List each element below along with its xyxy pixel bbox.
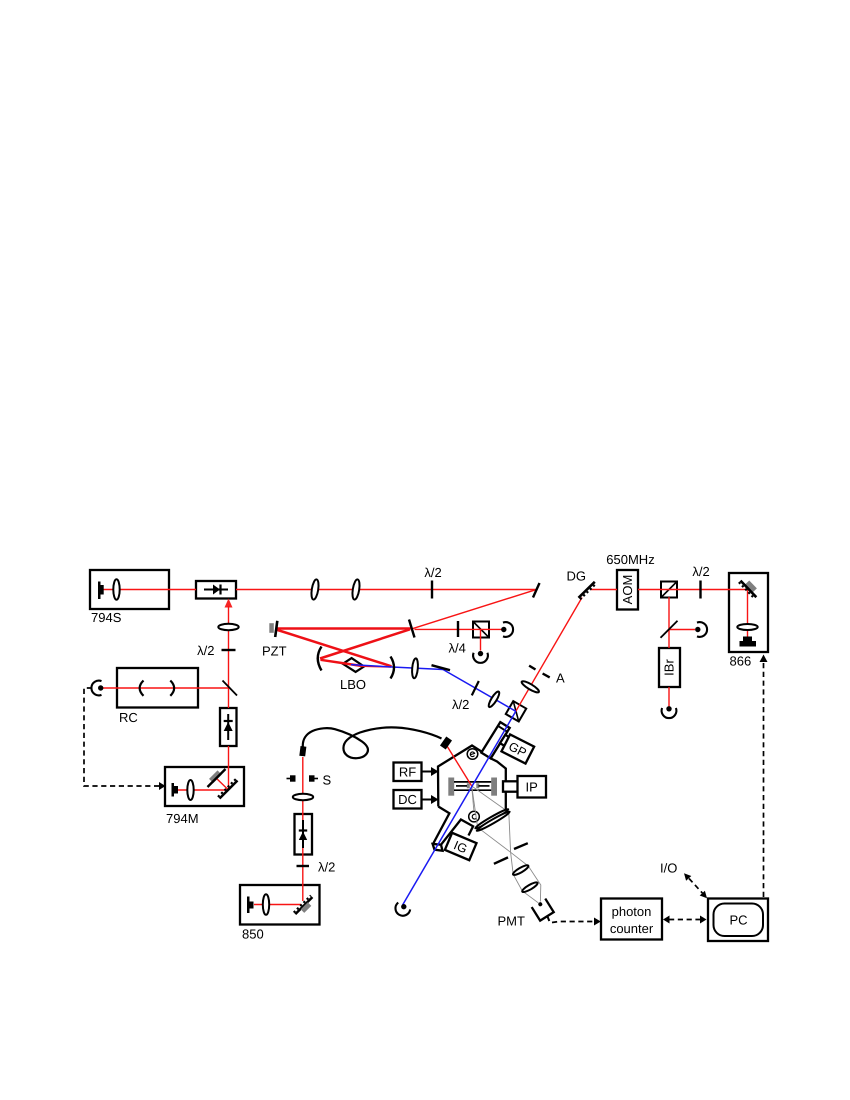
svg-text:PMT: PMT [498, 914, 526, 929]
svg-text:A: A [556, 671, 565, 686]
svg-text:λ/2: λ/2 [197, 643, 214, 658]
svg-text:DG: DG [567, 569, 587, 584]
svg-text:850: 850 [242, 927, 264, 942]
svg-text:I/O: I/O [660, 861, 677, 876]
svg-text:DC: DC [398, 792, 417, 807]
svg-text:PZT: PZT [262, 644, 287, 659]
svg-text:IBr: IBr [662, 659, 677, 676]
svg-text:794S: 794S [91, 610, 122, 625]
svg-text:λ/2: λ/2 [452, 697, 469, 712]
svg-text:λ/2: λ/2 [692, 564, 709, 579]
svg-text:RC: RC [119, 710, 138, 725]
svg-text:IP: IP [526, 779, 538, 794]
svg-text:PC: PC [729, 913, 747, 928]
svg-text:794M: 794M [166, 811, 199, 826]
svg-text:S: S [323, 773, 332, 788]
svg-text:AOM: AOM [620, 575, 635, 605]
svg-text:866: 866 [730, 654, 752, 669]
svg-text:LBO: LBO [340, 677, 366, 692]
svg-text:counter: counter [610, 921, 654, 936]
svg-text:photon: photon [612, 904, 652, 919]
svg-text:λ/2: λ/2 [318, 860, 335, 875]
svg-text:650MHz: 650MHz [606, 552, 654, 567]
svg-text:λ/4: λ/4 [449, 641, 466, 656]
svg-text:RF: RF [399, 765, 416, 780]
svg-text:λ/2: λ/2 [424, 565, 441, 580]
